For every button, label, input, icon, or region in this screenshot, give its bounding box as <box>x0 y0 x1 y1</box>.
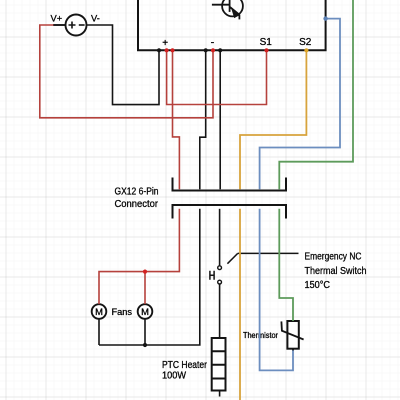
wire + terminal to S1 red <box>167 51 267 105</box>
svg-text:V-: V- <box>91 13 100 23</box>
svg-text:150°C: 150°C <box>305 280 331 291</box>
wire green from top to connector pin6 <box>279 0 353 189</box>
wire fan2 supply branch <box>144 272 146 305</box>
wire below heater <box>219 391 221 397</box>
junction fans return <box>143 343 147 347</box>
PTC heater R1 <box>212 338 226 391</box>
svg-text:Connector: Connector <box>115 199 159 210</box>
wire pin5 blue below connector to thermistor <box>260 209 293 371</box>
wire pin6 green below connector to thermistor <box>279 209 293 321</box>
svg-text:-: - <box>211 37 215 49</box>
power supply V1 <box>53 15 87 36</box>
wire blue box to connector pin5 <box>260 19 340 190</box>
svg-text:+: + <box>162 38 168 49</box>
svg-text:GX12 6-Pin: GX12 6-Pin <box>115 186 159 197</box>
svg-text:S1: S1 <box>260 37 273 48</box>
wire thermistor bottom stub <box>292 349 294 351</box>
leader line thermal switch label <box>238 252 299 254</box>
wire V+ red to - terminal <box>40 25 213 118</box>
svg-text:Thermistor: Thermistor <box>243 331 278 340</box>
svg-text:Emergency NC: Emergency NC <box>305 251 362 262</box>
wire thermal switch to heater <box>219 284 221 338</box>
wire fan2 return <box>144 319 146 345</box>
node pin3 terminal <box>218 48 222 52</box>
svg-text:V+: V+ <box>51 13 63 23</box>
connector J1 top shell <box>173 178 287 191</box>
node blue at box edge <box>323 16 327 20</box>
svg-text:Thermal Switch: Thermal Switch <box>305 266 367 277</box>
node S1 terminal <box>264 48 268 52</box>
wire V- to box + terminal <box>87 25 160 105</box>
wire pin1 red + terminal to connector <box>173 51 180 189</box>
node + terminal <box>165 48 169 52</box>
svg-text:M: M <box>95 306 103 317</box>
connector J1 bottom shell <box>173 205 287 219</box>
wire pin4 orange below connector <box>239 209 241 400</box>
wire pin1 below connector to fans supply bus <box>99 209 179 304</box>
thermistor RT1 <box>281 321 303 349</box>
node V- at box edge <box>157 48 161 52</box>
node S2 terminal <box>304 48 308 52</box>
wire S2 orange to connector pin4 <box>240 51 306 189</box>
wire pin3 black from - terminal to connector <box>219 51 221 189</box>
svg-text:100W: 100W <box>162 370 187 381</box>
wire fan1 return <box>98 319 100 345</box>
thermal switch SW1 <box>210 253 238 284</box>
transistor Q1 <box>212 0 243 19</box>
wire pin2 black from - terminal to connector <box>200 51 206 189</box>
wire pin2 below connector to fans return bus <box>99 209 200 345</box>
node pin1 terminal <box>170 48 174 52</box>
svg-text:S2: S2 <box>299 37 312 48</box>
junction fans supply <box>143 270 147 274</box>
node - terminal <box>204 48 208 52</box>
motor M2 fan <box>138 304 153 319</box>
controller box <box>138 0 326 50</box>
svg-text:M: M <box>141 306 149 317</box>
wire pin3 below connector to thermal switch <box>219 209 221 266</box>
motor M1 fan <box>92 304 107 319</box>
svg-text:Fans: Fans <box>112 307 133 317</box>
node V+ at - terminal <box>211 48 215 52</box>
